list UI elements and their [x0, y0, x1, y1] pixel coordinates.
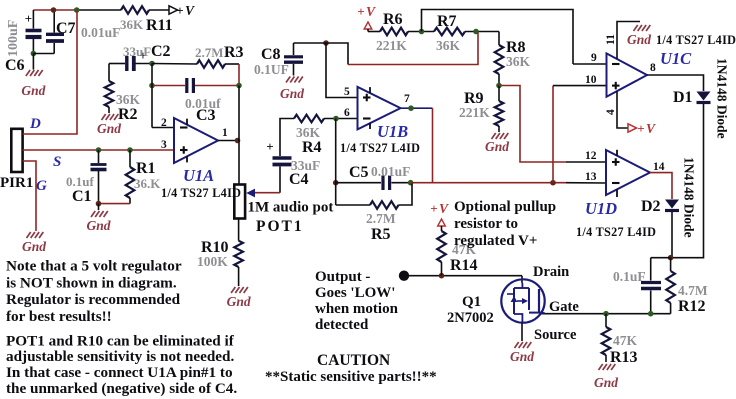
junction C7 top [51, 7, 57, 13]
label 2N7002 [447, 310, 494, 326]
note2 line 1 [6, 332, 235, 349]
power +V R6 [357, 4, 376, 29]
pin 8 label [650, 62, 656, 74]
svg-text:9: 9 [591, 52, 597, 64]
power +V R14 [430, 201, 449, 226]
svg-text:U1A: U1A [183, 166, 214, 185]
wire top rail to R11 [77, 9, 121, 11]
pin 5 label [344, 86, 350, 98]
svg-text:is NOT shown in diagram.: is NOT shown in diagram. [6, 274, 177, 291]
label C6 [5, 57, 25, 74]
svg-text:the unmarked (negative) side o: the unmarked (negative) side of C4. [6, 380, 237, 397]
junction C2 right [149, 61, 155, 67]
pin 7 label [404, 93, 410, 105]
wire D2 down [671, 212, 673, 258]
wire R5 left [336, 204, 370, 206]
wire PIR S to U1A pin3 [23, 149, 174, 151]
svg-text:R1: R1 [136, 160, 156, 177]
svg-text:R4: R4 [302, 139, 322, 156]
svg-text:D1: D1 [673, 89, 693, 106]
resistor R10 [234, 241, 243, 286]
label R14 [450, 257, 478, 274]
value 33uF C2 [123, 44, 151, 59]
svg-text:R14: R14 [450, 257, 478, 274]
svg-text:R12: R12 [678, 298, 706, 315]
wire node to cap [651, 257, 671, 259]
wire R11 to +V [149, 9, 169, 11]
svg-text:C6: C6 [5, 57, 25, 74]
svg-text:regulated V+: regulated V+ [454, 233, 537, 249]
wire source [521, 323, 523, 342]
svg-text:C2: C2 [151, 43, 171, 60]
svg-text:47K: 47K [613, 333, 638, 348]
junction C3 right [236, 83, 242, 89]
svg-text:R11: R11 [146, 17, 173, 34]
pin 6 label [344, 107, 350, 119]
junction C8 top [323, 40, 329, 46]
note2 line 4 [6, 380, 237, 397]
pin 9 label [591, 52, 597, 64]
resistor R4 [294, 115, 324, 123]
note line 2 [6, 274, 177, 291]
svg-text:1N4148 Diode: 1N4148 Diode [715, 58, 730, 139]
value 0.1uf C1 [66, 174, 94, 189]
svg-text:36K: 36K [436, 38, 461, 53]
resistor R14 [437, 226, 446, 276]
power +V U1C [628, 121, 656, 136]
ground R10 [231, 287, 248, 293]
label 1/4 TS27 L4ID U1B [340, 141, 420, 155]
svg-text:5: 5 [344, 86, 350, 98]
junction C5 right [408, 180, 414, 186]
label Gnd R9 [485, 139, 509, 154]
value 36K R11 [120, 17, 144, 32]
note line 1 [6, 258, 182, 275]
pullup note line 3 [454, 233, 537, 249]
svg-text:C1: C1 [72, 188, 92, 205]
wire gate line [540, 313, 671, 315]
svg-text:1/4 TS27 L4ID: 1/4 TS27 L4ID [576, 225, 656, 239]
label CAUTION [317, 352, 390, 369]
svg-text:V: V [366, 4, 376, 19]
label 1N4148 Diode D1 [715, 58, 730, 139]
wire node to R3 [152, 63, 197, 66]
label R2 [118, 106, 138, 123]
svg-text:1: 1 [222, 127, 228, 139]
label Gnd R13 [594, 375, 618, 390]
svg-text:Gnd: Gnd [97, 121, 121, 136]
output note line 2 [315, 285, 395, 301]
label U1C [660, 49, 692, 68]
wire node to C3 [152, 85, 185, 87]
svg-text:+: + [430, 201, 437, 216]
label POT1 [256, 218, 304, 235]
junction U1A output [235, 138, 241, 144]
junction R14 [439, 273, 445, 279]
wire output line [404, 275, 522, 277]
svg-text:Gnd: Gnd [86, 218, 110, 233]
svg-text:V: V [185, 3, 195, 18]
label 1/4 TS27 L4ID U1D [576, 225, 656, 239]
svg-text:D2: D2 [641, 198, 661, 215]
value 47K R13 [613, 333, 638, 348]
resistor R6 [380, 28, 408, 36]
svg-text:+: + [637, 121, 644, 136]
ground Q1 source [515, 342, 532, 348]
svg-text:Gnd: Gnd [594, 375, 618, 390]
svg-text:11: 11 [605, 34, 617, 45]
svg-text:POT1: POT1 [256, 218, 304, 235]
label R4 [302, 139, 322, 156]
svg-text:2.7M: 2.7M [195, 45, 224, 60]
value 0.1UF C8 [254, 62, 289, 77]
svg-text:Gnd: Gnd [22, 239, 46, 254]
svg-text:+: + [25, 11, 32, 26]
svg-text:0.1uF: 0.1uF [613, 269, 646, 284]
svg-text:12: 12 [585, 150, 597, 162]
label Gnd Q1 [510, 349, 534, 364]
value 36K R4 [296, 125, 321, 140]
svg-text:+: + [176, 3, 183, 18]
op-amp U1C [607, 53, 648, 96]
junction R8 R9 [496, 83, 502, 89]
pin label S [53, 154, 61, 170]
junction R7 right [473, 29, 479, 35]
label C7 [56, 20, 76, 37]
wire C1 bottom to gnd [98, 204, 100, 210]
wire C8 to node [294, 42, 327, 44]
junction R1 top [127, 147, 133, 153]
ground C8 [286, 77, 303, 83]
svg-text:C8: C8 [261, 46, 281, 63]
resistor R1 [126, 150, 135, 204]
svg-text:CAUTION: CAUTION [317, 352, 390, 369]
output terminal dot [399, 271, 409, 281]
svg-text:1N4148 Diode: 1N4148 Diode [682, 157, 697, 238]
svg-text:1M audio pot: 1M audio pot [248, 200, 334, 216]
svg-text:10: 10 [585, 74, 597, 86]
capacitor C8 [284, 43, 303, 76]
svg-text:Gnd: Gnd [485, 139, 509, 154]
svg-text:0.1uf: 0.1uf [66, 174, 94, 189]
wire pin6 node down [335, 119, 337, 206]
svg-text:detected: detected [315, 317, 369, 333]
wire node to corner [326, 43, 348, 65]
label Source [534, 327, 577, 343]
svg-text:D: D [29, 116, 41, 132]
label R8 [506, 39, 526, 56]
pullup note line 2 [454, 216, 518, 232]
svg-text:0.01uF: 0.01uF [371, 164, 410, 179]
svg-text:R5: R5 [371, 226, 391, 243]
op-amp U1D [606, 150, 650, 197]
wire up to U1C pin10 [552, 86, 554, 183]
svg-text:Source: Source [534, 327, 577, 343]
pin 13 label [585, 171, 597, 183]
label Gate [549, 299, 579, 315]
junction C5 left [333, 180, 339, 186]
plus U1D [612, 158, 620, 166]
pullup note line 1 [454, 199, 556, 215]
svg-text:resistor to: resistor to [454, 216, 518, 232]
value 221K R6 [376, 38, 407, 53]
minus U1C [612, 63, 620, 65]
note2 line 3 [6, 364, 233, 381]
sensor PIR1 body [11, 129, 22, 172]
label 1/4 TS27 L4ID U1A [161, 186, 241, 200]
junction diode output [668, 255, 674, 261]
wire C5 left [336, 182, 381, 184]
svg-text:36K: 36K [506, 54, 531, 69]
wire C1 to R1 bottom [99, 203, 131, 205]
svg-text:POT1 and R10 can be eliminated: POT1 and R10 can be eliminated if [6, 332, 235, 349]
potentiometer POT1 [234, 185, 245, 219]
value 0.1uF output cap [613, 269, 646, 284]
label PIR1 [0, 175, 33, 191]
svg-text:3: 3 [161, 139, 167, 151]
wire top rail left (C6 to node) [33, 9, 76, 11]
label Q1 [462, 294, 481, 310]
label R11 [146, 17, 173, 34]
wire R4 to pin6 [324, 118, 358, 120]
svg-text:1/4 TS27 L4ID: 1/4 TS27 L4ID [656, 33, 736, 47]
capacitor C6 [25, 10, 42, 54]
resistor R5 [370, 201, 399, 209]
label C3 [196, 107, 216, 124]
svg-text:R7: R7 [437, 13, 457, 30]
label 1N4148 Diode D2 [682, 157, 697, 238]
ground R9 [492, 133, 509, 139]
pin 11 label [605, 34, 617, 45]
junction C1 top [96, 147, 102, 153]
svg-text:36.K: 36.K [134, 176, 161, 191]
label R13 [610, 349, 638, 366]
value 100K R10 [197, 254, 228, 269]
capacitor C5 [383, 176, 390, 191]
wire C2 to R2 [108, 64, 110, 82]
wire U1B output down [432, 108, 434, 183]
wire C4 to POT wiper [252, 192, 280, 194]
note line 4 [6, 308, 112, 325]
capacitor C4 [266, 139, 291, 193]
svg-text:V: V [439, 201, 449, 216]
label Gnd PIR [22, 239, 46, 254]
pin 11 wire [617, 22, 640, 60]
svg-text:+: + [266, 139, 273, 154]
value 36K R2 [116, 92, 141, 107]
svg-text:Gnd: Gnd [227, 294, 251, 309]
svg-text:S: S [53, 154, 61, 170]
value 2.7M R3 [195, 45, 224, 60]
value 36.K R1 [134, 176, 161, 191]
svg-text:U1C: U1C [660, 49, 692, 68]
resistor R11 [121, 6, 149, 14]
plus U1C [612, 82, 620, 90]
ground R2 [102, 114, 119, 120]
svg-text:0.01uF: 0.01uF [81, 25, 120, 40]
power +V arrow top [169, 3, 195, 18]
pin 10 label [585, 74, 597, 86]
pin 3 label [161, 139, 167, 151]
svg-text:33uF: 33uF [123, 44, 151, 59]
output note line 4 [315, 317, 369, 333]
svg-text:100uF: 100uF [6, 20, 21, 57]
wire to U1A pin2 [152, 127, 174, 129]
label Gnd R2 [97, 121, 121, 136]
svg-text:Optional pullup: Optional pullup [454, 199, 556, 215]
wire C6 bottom to C7 bottom [33, 53, 54, 55]
label Gnd C6 [21, 83, 45, 98]
svg-text:13: 13 [585, 171, 597, 183]
wire U1D output [650, 173, 672, 199]
wire R3 to corner [225, 63, 239, 65]
svg-text:C7: C7 [56, 20, 76, 37]
svg-text:2: 2 [161, 117, 167, 129]
wire U1B output [401, 107, 433, 109]
svg-text:221K: 221K [459, 105, 490, 120]
note2 line 2 [6, 348, 234, 365]
pin 12 label [585, 150, 597, 162]
svg-text:Q1: Q1 [462, 294, 481, 310]
svg-text:In that case - connect U1A pin: In that case - connect U1A pin#1 to [6, 364, 233, 381]
svg-text:V: V [646, 121, 656, 136]
capacitor C2 [109, 48, 152, 71]
svg-text:G: G [36, 178, 47, 194]
wire to U1C pin9 [573, 63, 607, 65]
label C1 [72, 188, 92, 205]
label Drain [533, 264, 569, 280]
label Gnd U1C [627, 32, 651, 47]
pin label D [29, 116, 41, 132]
svg-text:+: + [357, 4, 364, 19]
pin 1 label [222, 127, 228, 139]
pin 4 label [605, 109, 617, 115]
svg-text:36K: 36K [120, 17, 144, 32]
junction C3 left [149, 83, 155, 89]
label D1 [673, 89, 693, 106]
svg-text:Goes 'LOW': Goes 'LOW' [315, 285, 395, 301]
junction node top [74, 7, 80, 13]
junction gate cap [648, 311, 654, 317]
label R12 [678, 298, 706, 315]
svg-text:Gnd: Gnd [280, 86, 304, 101]
value 36K R8 [506, 54, 531, 69]
output note line 1 [315, 269, 370, 285]
junction R6 R7 [419, 29, 425, 35]
label D2 [641, 198, 661, 215]
diode D2 [665, 200, 679, 211]
node C6 bottom [31, 51, 37, 57]
wire R3 corner down [238, 64, 240, 86]
transistor Q1 2N7002 [501, 279, 544, 322]
pin 4 wire [617, 91, 628, 128]
svg-text:U1B: U1B [377, 122, 408, 141]
svg-text:**Static sensitive parts!!**: **Static sensitive parts!!** [265, 369, 437, 385]
wire C6 to ground [32, 54, 34, 70]
wire C8 node to U1B pin5 [326, 43, 358, 98]
resistor R12 [666, 258, 675, 314]
svg-text:C4: C4 [289, 171, 309, 188]
resistor R13 [602, 314, 611, 362]
wire R8R9 node to U1D pin12 [499, 86, 606, 163]
wire drain [521, 276, 523, 283]
value 0.01uf C3 [185, 96, 221, 111]
label R9 [464, 90, 484, 107]
label R5 [371, 226, 391, 243]
svg-text:2N7002: 2N7002 [447, 310, 494, 326]
label static warning [265, 369, 437, 385]
plus U1A [180, 146, 188, 154]
svg-text:7: 7 [404, 93, 410, 105]
junction R4 right [333, 116, 339, 122]
resistor R8 [495, 32, 504, 86]
pin 14 label [653, 161, 665, 173]
svg-text:PIR1: PIR1 [0, 175, 33, 191]
label Gnd C8 [280, 86, 304, 101]
svg-text:2.7M: 2.7M [366, 211, 396, 226]
ground C6 [26, 70, 43, 76]
svg-text:when motion: when motion [315, 301, 399, 317]
wire PIR D to top node [23, 10, 77, 134]
value 47K R14 [452, 242, 477, 257]
op-amp U1B [358, 87, 401, 129]
junction U1B output [408, 105, 414, 111]
wire D1 down [671, 104, 704, 258]
wire POT1 to R10 [238, 218, 240, 241]
label R10 [201, 239, 229, 256]
label R6 [383, 11, 403, 28]
capacitor C1 [91, 150, 107, 204]
minus U1D [612, 182, 620, 184]
label R3 [224, 44, 244, 61]
diode D1 [697, 92, 711, 103]
svg-text:C5: C5 [349, 164, 369, 181]
wire output node vertical [238, 86, 240, 185]
wire U1C output [647, 75, 704, 91]
resistor R7 [434, 28, 465, 36]
svg-text:Gnd: Gnd [510, 349, 534, 364]
value 33uF C4 [291, 158, 320, 173]
svg-text:100K: 100K [197, 254, 228, 269]
label C5 [349, 164, 369, 181]
svg-text:Note that a 5 volt regulator: Note that a 5 volt regulator [6, 258, 182, 275]
wire U1A output [218, 140, 239, 142]
svg-text:36K: 36K [296, 125, 321, 140]
wire R6 to R7 [408, 31, 434, 33]
svg-text:8: 8 [650, 62, 656, 74]
svg-text:adjustable sensitivity is not: adjustable sensitivity is not needed. [6, 348, 234, 365]
wire corner to R7 node [348, 32, 478, 65]
svg-text:for best results!!: for best results!! [6, 308, 112, 325]
svg-text:0.1UF: 0.1UF [254, 62, 289, 77]
svg-text:C3: C3 [196, 107, 216, 124]
plus U1B [363, 94, 371, 102]
svg-text:1/4 TS27 L4ID: 1/4 TS27 L4ID [161, 186, 241, 200]
value 0.01uF C7 [81, 25, 120, 40]
label U1D [585, 199, 617, 218]
wire R5 right [399, 183, 413, 205]
svg-text:R6: R6 [383, 11, 403, 28]
value 4.7M R12 [678, 283, 708, 298]
label U1A [183, 166, 214, 185]
label 1M audio pot [248, 200, 334, 216]
label C8 [261, 46, 281, 63]
label Gnd C1 [86, 218, 110, 233]
svg-text:R13: R13 [610, 349, 638, 366]
wire comparator input line [411, 182, 606, 184]
svg-text:Regulator is recommended: Regulator is recommended [6, 291, 181, 308]
pin label G [36, 178, 47, 194]
